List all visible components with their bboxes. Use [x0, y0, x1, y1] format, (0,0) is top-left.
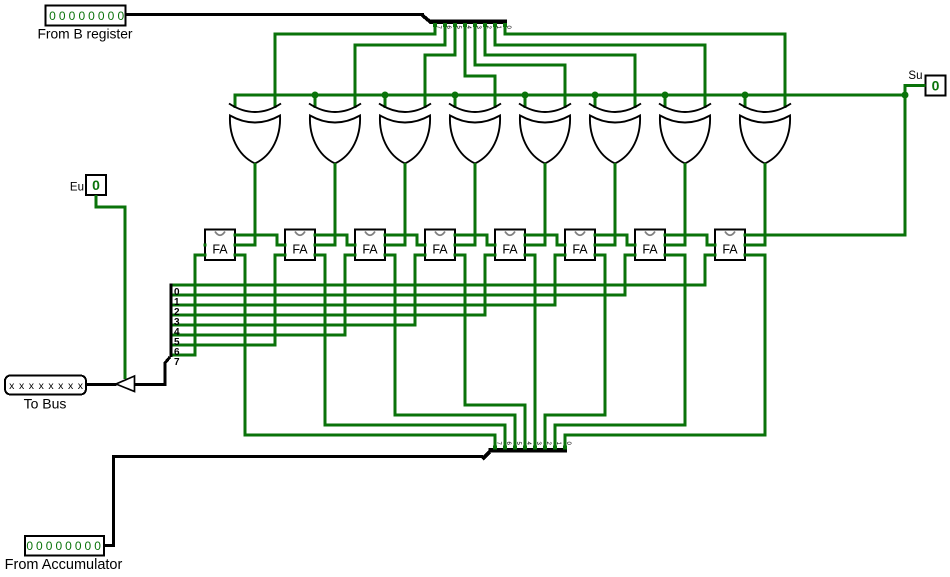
svg-text:FA: FA	[212, 243, 228, 257]
svg-text:x: x	[19, 380, 25, 392]
svg-text:FA: FA	[642, 243, 658, 257]
wire: rail stub to XOR3	[384, 95, 387, 108]
wire: Su to rail and to FA8 carry-in	[745, 86, 926, 236]
wire: rail stub to XOR7	[664, 95, 667, 108]
wire: XOR6 output to FA6 B input	[595, 163, 615, 245]
wire: rail stub to XOR2	[314, 95, 317, 108]
wire: B register bus to splitter	[125, 13, 424, 16]
svg-text:x: x	[29, 380, 35, 392]
wire: FA4 sum to splitter bit 4	[172, 255, 425, 325]
wire: XOR1 output to FA1 B input	[235, 163, 255, 245]
wire: FA6 sum to splitter bit 2	[172, 255, 565, 305]
full adder FA7	[634, 230, 667, 261]
full adder FA5	[494, 230, 527, 261]
wire: carry FA5 Cout to FA4 Cin	[455, 235, 495, 245]
svg-text:0: 0	[88, 9, 95, 23]
wire: FA5 sum to splitter bit 3	[172, 255, 495, 315]
wire: B bit 5 to XOR3	[425, 23, 455, 108]
svg-text:0: 0	[98, 9, 105, 23]
xor gate X5	[519, 104, 571, 164]
svg-text:Su: Su	[908, 70, 922, 82]
splitter SP2 (sum to bus)	[170, 284, 181, 369]
wire: accumulator bit 1 to FA7 A input	[555, 255, 685, 448]
wire: accumulator bit 5 to FA3 A input	[385, 255, 515, 448]
wire: accumulator bit 6 to FA2 A input	[315, 255, 505, 448]
svg-text:0: 0	[75, 539, 82, 553]
svg-text:x: x	[39, 380, 45, 392]
wire: carry FA3 Cout to FA2 Cin	[315, 235, 355, 245]
svg-text:x: x	[48, 380, 54, 392]
svg-text:0: 0	[108, 9, 115, 23]
wire: accumulator bit 7 to FA1 A input	[235, 255, 495, 448]
wire: carry FA8 Cout to FA7 Cin	[665, 235, 715, 245]
svg-text:x: x	[9, 380, 15, 392]
svg-text:7: 7	[174, 357, 180, 368]
wire: accumulator bit 2 to FA6 A input	[545, 255, 605, 448]
wire: B bit 7 to XOR1	[275, 23, 435, 108]
full adder FA6	[564, 230, 597, 261]
svg-text:FA: FA	[722, 243, 738, 257]
xor gate X6	[589, 104, 641, 164]
full adder FA2	[284, 230, 317, 261]
wire: FA7 sum to splitter bit 1	[172, 255, 635, 295]
svg-text:FA: FA	[502, 243, 518, 257]
svg-text:0: 0	[46, 539, 53, 553]
svg-text:0: 0	[85, 539, 92, 553]
full adder FA8	[714, 230, 747, 261]
xor gate X1	[229, 104, 281, 164]
svg-text:FA: FA	[362, 243, 378, 257]
wire: B bit 0 to XOR8	[505, 23, 785, 108]
input pin "From B register"	[37, 6, 132, 42]
svg-text:0: 0	[59, 9, 66, 23]
svg-text:FA: FA	[432, 243, 448, 257]
splitter SP3 (accumulator fan-out)	[489, 442, 572, 453]
xor gate X2	[309, 104, 361, 164]
wire: Su rail	[235, 95, 905, 108]
xor gate X3	[379, 104, 431, 164]
wire: FA3 sum to splitter bit 5	[172, 255, 355, 335]
xor gate X7	[659, 104, 711, 164]
input pin Su	[908, 70, 945, 96]
wire: buffer output to To Bus pin	[86, 383, 117, 386]
svg-text:0: 0	[94, 539, 101, 553]
svg-text:From B register: From B register	[37, 27, 132, 42]
svg-text:x: x	[58, 380, 64, 392]
wire: carry FA2 Cout to FA1 Cin	[235, 235, 285, 245]
svg-text:From Accumulator: From Accumulator	[5, 557, 123, 573]
wire: B bit 3 to XOR5	[475, 23, 565, 108]
wire: rail stub to XOR8	[744, 95, 747, 108]
svg-text:0: 0	[36, 539, 43, 553]
wire: FA2 sum to splitter bit 6	[172, 255, 285, 345]
wire: B bit 4 to XOR4	[465, 23, 495, 108]
wire: Eu to buffer enable	[96, 195, 125, 379]
svg-text:0: 0	[932, 78, 940, 94]
node: rail junctions	[312, 92, 909, 99]
svg-text:0: 0	[117, 9, 124, 23]
wire: rail stub to XOR5	[524, 95, 527, 108]
wire: rail stub to XOR6	[594, 95, 597, 108]
wire: XOR8 output to FA8 B input	[745, 163, 765, 245]
xor gate X8	[739, 104, 791, 164]
wire: B bit 1 to XOR7	[495, 23, 705, 108]
output pin "To Bus"	[5, 376, 86, 412]
wire: accumulator bit 0 to FA8 A input	[565, 255, 765, 448]
wire: rail stub to XOR4	[454, 95, 457, 108]
tri-state buffer (Eu controlled)	[116, 376, 135, 392]
svg-text:0: 0	[49, 9, 56, 23]
input pin "From Accumulator"	[5, 536, 123, 573]
wire: FA1 sum to splitter bit 7	[172, 255, 205, 355]
splitter SP1 (B register fan-out)	[430, 20, 511, 30]
svg-text:0: 0	[26, 539, 33, 553]
wire: B bit 2 to XOR6	[485, 23, 635, 108]
svg-text:FA: FA	[292, 243, 308, 257]
wire: XOR7 output to FA7 B input	[665, 163, 685, 245]
wire: XOR2 output to FA2 B input	[315, 163, 335, 245]
full adder FA4	[424, 230, 457, 261]
wire: carry FA6 Cout to FA5 Cin	[525, 235, 565, 245]
wire: XOR3 output to FA3 B input	[385, 163, 405, 245]
svg-text:0: 0	[92, 177, 100, 193]
full adder FA3	[354, 230, 387, 261]
svg-text:0: 0	[78, 9, 85, 23]
wire: carry FA4 Cout to FA3 Cin	[385, 235, 425, 245]
svg-text:0: 0	[69, 9, 76, 23]
svg-text:x: x	[78, 380, 84, 392]
input pin Eu	[70, 175, 106, 195]
svg-text:0: 0	[55, 539, 62, 553]
wire: carry FA7 Cout to FA6 Cin	[595, 235, 635, 245]
wire: accumulator bit 3 to FA5 A input	[525, 255, 535, 448]
wire: FA8 sum to splitter bit 0	[172, 255, 715, 285]
wire: B bit 6 to XOR2	[355, 23, 445, 108]
wire: accumulator bit 4 to FA4 A input	[455, 255, 525, 448]
wire: SP2 bus to tri-state buffer	[135, 357, 171, 385]
xor gate X4	[449, 104, 501, 164]
svg-text:x: x	[68, 380, 74, 392]
full adder FA1	[204, 230, 237, 261]
wire: accumulator bus to SP3	[104, 457, 483, 546]
svg-text:To Bus: To Bus	[24, 396, 67, 412]
svg-text:0: 0	[65, 539, 72, 553]
svg-text:Eu: Eu	[70, 182, 84, 194]
wire: XOR5 output to FA5 B input	[525, 163, 545, 245]
svg-text:FA: FA	[572, 243, 588, 257]
wire: XOR4 output to FA4 B input	[455, 163, 475, 245]
